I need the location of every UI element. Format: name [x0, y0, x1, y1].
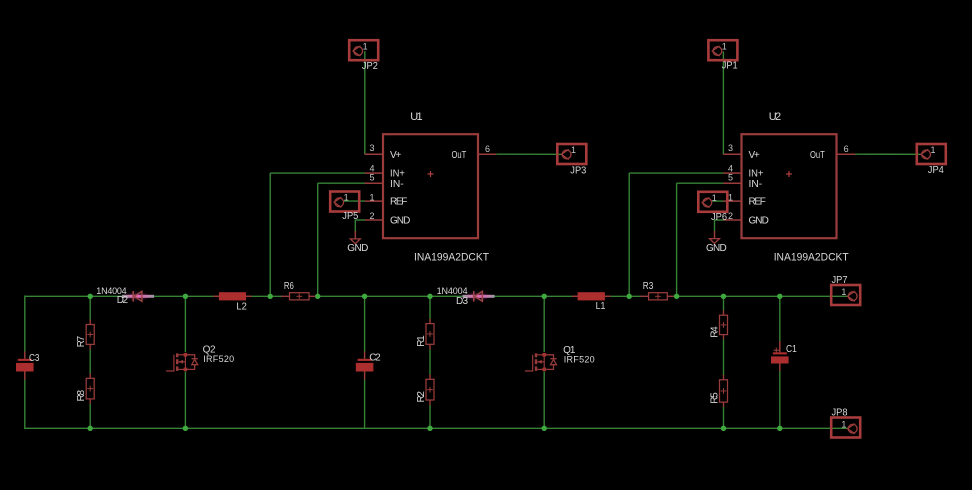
wire U1 OUT to JP3 [496, 153, 562, 155]
connector JP2 pin 1 [349, 40, 378, 60]
svg-text:IN-: IN- [390, 179, 404, 190]
wire Q1 source [543, 372, 545, 429]
wire U2 IN+ pin stub [723, 172, 741, 174]
svg-text:GND: GND [749, 216, 769, 227]
svg-text:R6: R6 [284, 281, 294, 292]
wire R8 bottom lead [89, 404, 91, 429]
wire top rail segment D2 to L2 [154, 295, 219, 297]
label R1 [416, 335, 427, 347]
svg-text:JP8: JP8 [832, 408, 848, 419]
label C2 [369, 353, 381, 364]
svg-text:INA199A2DCKT: INA199A2DCKT [774, 252, 849, 264]
node top rail junction 5 [362, 294, 367, 299]
svg-text:D2: D2 [117, 295, 129, 306]
wire U1 OUT pin stub [478, 153, 496, 155]
node top rail junction 4 [315, 294, 320, 299]
svg-text:IRF520: IRF520 [564, 355, 595, 365]
capacitor C2 [356, 352, 374, 380]
node bottom rail junction 3 [427, 426, 432, 431]
label U1 value INA199A2DCKT [414, 252, 489, 264]
connector JP8 pin 1 [831, 418, 860, 438]
svg-text:JP5: JP5 [342, 211, 358, 222]
resistor R5 [720, 375, 728, 407]
svg-text:REF: REF [390, 197, 407, 208]
op-amp U1 INA199A2DCKT [383, 134, 478, 238]
wire U1 V+ pin stub [365, 153, 383, 155]
node top rail junction 3 [268, 294, 273, 299]
capacitor C3 [16, 352, 34, 380]
connector JP4 pin 1 [917, 144, 946, 164]
svg-text:JP2: JP2 [362, 61, 378, 72]
label GND U1 [347, 243, 368, 254]
wire R1 top lead [429, 296, 431, 319]
svg-text:1: 1 [369, 193, 374, 203]
label JP3 [570, 165, 586, 176]
label R6 [284, 281, 294, 292]
transistor Q2 IRF520 [166, 65, 198, 372]
label R5 [709, 392, 720, 404]
label D2 value 1N4004 [96, 286, 126, 296]
svg-text:1N4004: 1N4004 [437, 286, 468, 296]
svg-text:5: 5 [369, 173, 374, 183]
svg-text:GND: GND [390, 216, 410, 227]
wire U1 REF pin stub [365, 200, 383, 202]
wire R7 top lead [89, 296, 91, 320]
wire R7-R8 link [89, 349, 91, 374]
node top rail junction 7 [542, 294, 547, 299]
resistor R2 [426, 374, 434, 405]
svg-text:U1: U1 [410, 111, 422, 123]
node top rail junction 9 [674, 294, 679, 299]
svg-text:OuT: OuT [810, 150, 825, 161]
svg-text:V+: V+ [749, 150, 760, 161]
svg-text:1: 1 [722, 41, 727, 52]
svg-text:GND: GND [347, 243, 368, 254]
svg-text:6: 6 [844, 144, 849, 154]
diode D3 1N4004 (highlighted net) [463, 291, 495, 302]
svg-text:INA199A2DCKT: INA199A2DCKT [414, 252, 489, 264]
wire U1 ground lead [354, 231, 356, 239]
svg-text:JP4: JP4 [928, 165, 944, 176]
wire U2 IN+ sense [629, 173, 723, 296]
wire U2 V+ pin stub [723, 153, 741, 155]
svg-text:6: 6 [485, 144, 490, 154]
node top rail junction 8 [627, 294, 632, 299]
svg-text:IN-: IN- [749, 179, 763, 190]
wire U2 ground lead [714, 231, 716, 239]
node bottom rail junction 5 [721, 426, 726, 431]
label JP8 [832, 408, 848, 419]
svg-text:JP7: JP7 [832, 275, 848, 286]
svg-text:1: 1 [728, 193, 733, 203]
label R7 [76, 335, 87, 347]
ground symbol U2 [710, 239, 720, 244]
label Q1 value IRF520 [564, 355, 595, 365]
label L2 [236, 301, 247, 312]
wire U1 IN- pin stub [365, 182, 383, 184]
svg-text:C3: C3 [29, 353, 40, 364]
wire C1 top lead [779, 296, 781, 341]
svg-text:R7: R7 [76, 335, 87, 347]
svg-text:R5: R5 [709, 392, 720, 404]
resistor R3 [640, 293, 673, 300]
label D2 [117, 295, 129, 306]
wire U2 OUT to JP4 [855, 153, 921, 155]
svg-text:U2: U2 [769, 111, 781, 123]
node top rail junction 6 [427, 294, 432, 299]
wire C2 top lead [364, 296, 366, 351]
wire U2 IN- sense [677, 183, 724, 296]
wire U2 IN- pin stub [723, 182, 741, 184]
label R4 [709, 326, 720, 338]
svg-text:OuT: OuT [452, 150, 467, 161]
wire top rail segment R3 to JP7 [673, 295, 849, 297]
label JP7 [832, 275, 848, 286]
node top rail junction 10 [721, 294, 726, 299]
inductor L2 [213, 292, 251, 300]
wire left rail upper segment [24, 295, 26, 351]
label JP2 [362, 61, 378, 72]
svg-text:L1: L1 [596, 301, 606, 312]
resistor R8 [86, 373, 94, 403]
transistor Q1 IRF520 [525, 65, 557, 372]
wire JP6 to U2 REF [712, 200, 724, 202]
svg-text:C1: C1 [786, 344, 797, 355]
wire R5 bottom lead [723, 407, 725, 428]
svg-text:R3: R3 [643, 281, 654, 292]
svg-text:5: 5 [728, 173, 733, 183]
svg-text:C2: C2 [369, 353, 381, 364]
svg-text:1: 1 [841, 287, 846, 298]
svg-text:1: 1 [571, 145, 576, 156]
connector JP1 pin 1 [708, 40, 737, 60]
label U2 value INA199A2DCKT [774, 252, 849, 264]
label Q2 [203, 344, 216, 355]
wire U2 GND pin stub [723, 219, 741, 221]
svg-text:JP6: JP6 [711, 212, 727, 223]
svg-text:1: 1 [712, 193, 717, 204]
label JP1 [722, 61, 738, 72]
capacitor C1 [771, 341, 789, 371]
connector JP6 pin 1 [698, 192, 727, 212]
wire JP5 to U1 REF [343, 200, 365, 202]
node bottom rail junction 4 [542, 426, 547, 431]
wire U1 IN+ pin stub [365, 172, 383, 174]
svg-text:L2: L2 [236, 301, 247, 312]
label GND U2 [706, 243, 727, 254]
node top rail junction 1 [88, 294, 93, 299]
wire U2 OUT pin stub [837, 153, 855, 155]
label D3 value 1N4004 [437, 286, 468, 296]
svg-text:1: 1 [931, 145, 936, 156]
wire C1 bottom lead [779, 371, 781, 428]
node bottom rail junction 2 [183, 426, 188, 431]
label JP4 [928, 165, 944, 176]
resistor R4 [720, 310, 728, 339]
svg-text:3: 3 [728, 143, 733, 153]
svg-text:R8: R8 [76, 390, 87, 402]
wire top rail segment L2 to R6 [246, 295, 283, 297]
label C3 [29, 353, 40, 364]
node bottom rail junction 6 [777, 426, 782, 431]
svg-text:IRF520: IRF520 [203, 354, 234, 364]
wire R2 bottom lead [429, 405, 431, 429]
svg-text:R1: R1 [416, 335, 427, 347]
wire JP1 to U2 V+ [723, 51, 724, 154]
svg-text:GND: GND [706, 243, 727, 254]
resistor R7 [86, 320, 94, 350]
label R3 [643, 281, 654, 292]
label JP5 [342, 211, 358, 222]
wire R4-R5 link [723, 339, 725, 375]
svg-text:2: 2 [369, 211, 374, 221]
node top rail junction 2 [183, 294, 188, 299]
connector JP3 pin 1 [557, 144, 586, 164]
wire C2 bottom lead [364, 380, 366, 429]
label R2 [416, 391, 427, 403]
ground symbol U1 [350, 239, 360, 244]
wire Q2 source [184, 372, 186, 429]
wire U1 IN- sense [318, 183, 365, 296]
connector JP5 pin 1 [330, 192, 359, 212]
label JP6 [711, 212, 727, 223]
svg-text:D3: D3 [456, 296, 468, 307]
connector JP7 pin 1 [831, 285, 860, 305]
svg-text:3: 3 [369, 143, 374, 153]
wire top rail segment D3 to L1 [493, 295, 577, 297]
wire U1 GND pin stub [365, 219, 383, 221]
label L1 [596, 301, 606, 312]
wire top rail segment L1 to R3 [605, 295, 642, 297]
wire top rail segment R6 to D3 [315, 295, 463, 297]
label U2 [769, 111, 781, 123]
wire U1 IN+ sense [270, 173, 365, 296]
wire bottom rail [25, 427, 848, 429]
U1 pin names and numbers [369, 143, 490, 226]
svg-text:JP1: JP1 [722, 61, 738, 72]
svg-text:1: 1 [363, 41, 368, 52]
label D3 [456, 296, 468, 307]
svg-text:V+: V+ [390, 150, 401, 161]
svg-text:1: 1 [841, 419, 846, 430]
node top rail junction 11 [777, 294, 782, 299]
wire Q1 drain [543, 296, 545, 352]
label U1 [410, 111, 422, 123]
svg-text:JP3: JP3 [570, 165, 586, 176]
wire R1-R2 link [429, 349, 431, 375]
wire U2 GND to ground [715, 220, 724, 232]
wire U1 GND to ground [355, 220, 365, 232]
svg-text:REF: REF [749, 197, 766, 208]
resistor R1 [426, 319, 434, 350]
wire Q2 drain [184, 296, 186, 352]
diode D2 1N4004 (highlighted net) [122, 291, 154, 302]
label R8 [76, 390, 87, 402]
label C1 [786, 344, 797, 355]
svg-text:1: 1 [344, 193, 349, 204]
wire left rail lower segment [24, 380, 26, 430]
op-amp U2 INA199A2DCKT [742, 134, 837, 238]
node bottom rail junction 1 [88, 426, 93, 431]
wire R4 top lead [723, 296, 725, 310]
inductor L1 [572, 292, 611, 300]
svg-text:R2: R2 [416, 391, 427, 403]
resistor R6 [281, 293, 315, 300]
U2 pin names and numbers [728, 143, 849, 226]
label Q2 value IRF520 [203, 354, 234, 364]
wire top rail segment left (input rail to D2) [25, 295, 122, 297]
svg-text:2: 2 [728, 211, 733, 221]
wire JP2 to U1 V+ [365, 51, 366, 154]
svg-text:R4: R4 [709, 326, 720, 338]
wire U2 REF pin stub [723, 200, 741, 202]
label Q1 [563, 345, 576, 356]
